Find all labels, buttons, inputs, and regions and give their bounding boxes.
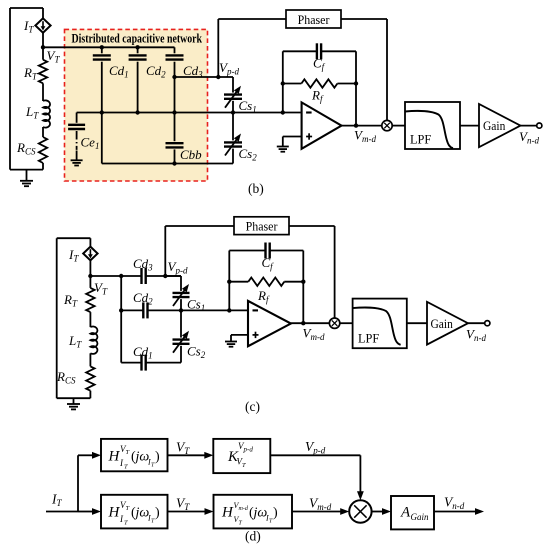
wire (d) input bbox=[46, 511, 78, 513]
resistor R_CS (c) bbox=[86, 366, 94, 390]
wire (b) left drop to bottom bus bbox=[101, 113, 103, 164]
label V_m-d (c) bbox=[303, 326, 325, 343]
svg-text:(d): (d) bbox=[245, 529, 261, 544]
svg-text:Cs1: Cs1 bbox=[239, 98, 257, 115]
multiplier (b) bbox=[382, 120, 392, 130]
inductor L_T (b) bbox=[43, 100, 50, 127]
wire (c) LPF to gain bbox=[407, 322, 427, 324]
arrow (d) into H block top bbox=[78, 452, 101, 459]
svg-text:p-d: p-d bbox=[243, 446, 254, 454]
wire (c) multiplier to LPF bbox=[340, 322, 353, 324]
capacitor Cd1 (b) bbox=[93, 45, 111, 112]
label Cbb (b) bbox=[180, 147, 202, 162]
wire (b) R_CS to bottom bbox=[42, 163, 44, 170]
node V_p-d (b) bbox=[216, 75, 220, 79]
label C_f (c) bbox=[262, 255, 275, 272]
capacitor Cbb (b) bbox=[166, 113, 184, 166]
svg-text:Cd1: Cd1 bbox=[133, 344, 153, 361]
label V_T (d) bottom bbox=[176, 496, 190, 513]
svg-text:jω: jω bbox=[252, 506, 268, 521]
svg-text:H: H bbox=[108, 448, 121, 464]
svg-text:): ) bbox=[273, 506, 278, 521]
svg-text:Vp-d: Vp-d bbox=[305, 439, 326, 456]
label V_m-d (d) bbox=[309, 496, 332, 513]
wire (c) source to R_T bbox=[89, 260, 91, 288]
label Ce1 (b) bbox=[81, 135, 100, 152]
arrow (d) H to K bbox=[168, 452, 214, 459]
wire (b) top bus V_T bbox=[43, 46, 175, 48]
label Cd1 (b) bbox=[109, 63, 129, 80]
svg-text:T: T bbox=[242, 462, 246, 469]
wire (b) L_T to R_CS bbox=[42, 127, 44, 137]
label Cd3 (c) bbox=[133, 256, 153, 273]
svg-text:Gain: Gain bbox=[483, 119, 505, 134]
label Cd1 (c) bbox=[133, 344, 153, 361]
multiplier (d) bbox=[349, 500, 371, 522]
caption (b) bbox=[248, 181, 264, 196]
label Cs2 (b) bbox=[239, 146, 258, 163]
wire (c) feedback right riser bbox=[302, 251, 304, 324]
wire (c) source top lead bbox=[89, 238, 91, 246]
wire (c) op-amp output bbox=[291, 321, 330, 325]
block Phaser (b) bbox=[286, 10, 341, 28]
wire (c) loop top bbox=[57, 237, 91, 239]
capacitor C_f (b) bbox=[283, 43, 356, 59]
block H_IT_VT (d) top bbox=[101, 439, 168, 471]
wire (c) phaser to riser bbox=[289, 225, 335, 227]
svg-text:Gain: Gain bbox=[431, 316, 453, 331]
wire (c) R_T to L_T bbox=[89, 312, 91, 327]
svg-text:LPF: LPF bbox=[358, 331, 379, 345]
arrow (d) into H block bottom bbox=[78, 508, 101, 515]
arrow (d) H2 to multiplier bbox=[292, 508, 349, 515]
label V_p-d (d) bbox=[305, 439, 326, 456]
variable capacitor Cs2 (c) bbox=[173, 310, 190, 362]
label R_T (c) bbox=[63, 292, 78, 309]
label Cd2 (c) bbox=[133, 290, 153, 307]
block K_VT_Vpd (d) bbox=[213, 439, 270, 473]
svg-text:Cs2: Cs2 bbox=[187, 344, 206, 361]
label V_n-d (b) bbox=[519, 129, 539, 146]
capacitor Cd2 (b) bbox=[129, 45, 147, 112]
label V_m-d (b) bbox=[354, 128, 376, 145]
arrow (d) V_p-d into multiplier bbox=[357, 455, 364, 500]
wire (b) R_T to L_T bbox=[42, 83, 44, 101]
capacitor Cd1 (c) bbox=[121, 355, 181, 371]
block H_VT_Vmd (d) bbox=[214, 495, 293, 529]
block Phaser (c) bbox=[234, 217, 289, 235]
svg-text:Cs2: Cs2 bbox=[239, 146, 258, 163]
capacitor Cd3 (c) bbox=[90, 268, 181, 284]
capacitor Cd3 (b) bbox=[166, 47, 184, 112]
label Cd2 (b) bbox=[146, 63, 166, 80]
svg-text:Cbb: Cbb bbox=[180, 147, 202, 162]
amplifier Gain (c) bbox=[427, 302, 468, 345]
svg-text:): ) bbox=[155, 449, 160, 464]
svg-text:RT: RT bbox=[63, 292, 78, 309]
wire (b) middle bus bbox=[77, 112, 301, 114]
svg-text:Cf: Cf bbox=[313, 56, 326, 73]
label I_T (b) bbox=[23, 18, 34, 35]
capacitor Cd2 (c) bbox=[121, 302, 248, 318]
inductor L_T (c) bbox=[90, 326, 97, 353]
svg-text:Gain: Gain bbox=[411, 512, 430, 522]
svg-text:Rf: Rf bbox=[257, 288, 270, 305]
svg-text:Vm-d: Vm-d bbox=[309, 496, 332, 513]
wire (b) to phaser bbox=[218, 18, 286, 20]
wire (c) gain to terminal bbox=[468, 322, 485, 324]
svg-text:VT: VT bbox=[176, 440, 190, 457]
svg-text:LT: LT bbox=[68, 333, 82, 350]
wire (b) loop bottom bbox=[10, 169, 43, 171]
current source I_T (c) bbox=[83, 247, 97, 261]
block A_Gain (d) bbox=[391, 496, 434, 529]
svg-text:Vp-d: Vp-d bbox=[219, 60, 239, 77]
wire (b) multiplier to LPF bbox=[392, 125, 405, 127]
svg-text:LPF: LPF bbox=[410, 132, 431, 146]
wire (b) source top lead bbox=[42, 8, 44, 18]
svg-text:IT: IT bbox=[68, 247, 79, 264]
label R_T (b) bbox=[23, 65, 38, 82]
svg-text:Vn-d: Vn-d bbox=[444, 495, 465, 512]
caption (d) bbox=[245, 529, 261, 544]
wire (c) loop left bbox=[56, 238, 58, 398]
svg-text:(b): (b) bbox=[248, 181, 264, 196]
label V_p-d (c) bbox=[168, 259, 188, 276]
label V_T (c) bbox=[94, 280, 108, 297]
current source I_T (b) bbox=[35, 18, 50, 32]
svg-text:Cs1: Cs1 bbox=[187, 297, 205, 314]
svg-text:LT: LT bbox=[25, 104, 39, 121]
svg-text:jω: jω bbox=[134, 449, 150, 464]
label L_T (c) bbox=[68, 333, 82, 350]
wire (b) V_p-d riser bbox=[217, 19, 219, 77]
arrow (d) multiplier to A_Gain bbox=[372, 508, 391, 515]
svg-text:Cd2: Cd2 bbox=[133, 290, 153, 307]
label Cs1 (b) bbox=[239, 98, 257, 115]
svg-text:T: T bbox=[126, 505, 130, 512]
op-amp U2 (c) bbox=[248, 301, 291, 346]
variable capacitor Cs2 (b) bbox=[224, 113, 242, 164]
label V_n-d (d) bbox=[444, 495, 465, 512]
ground (b) source loop bbox=[20, 170, 33, 187]
svg-text:): ) bbox=[155, 506, 160, 521]
label V_n-d (c) bbox=[466, 327, 486, 344]
svg-text:Phaser: Phaser bbox=[298, 12, 331, 27]
svg-text:Cd3: Cd3 bbox=[133, 256, 153, 273]
svg-text:jω: jω bbox=[134, 506, 150, 521]
terminal V_n-d (b) bbox=[537, 123, 542, 128]
resistor R_T (b) bbox=[39, 60, 47, 84]
op-amp U1 (b) bbox=[302, 102, 342, 148]
resistor R_f (c) bbox=[227, 278, 305, 286]
wire (b) source to R_T bbox=[42, 33, 44, 60]
label I_T (c) bbox=[68, 247, 79, 264]
svg-text:T: T bbox=[124, 520, 128, 527]
node V_p-d (c) bbox=[163, 274, 167, 278]
wire (b) LPF to gain bbox=[460, 125, 479, 127]
capacitor Ce1 (b) bbox=[68, 113, 85, 160]
ground (c) loop bbox=[67, 398, 80, 409]
distributed capacitive network box (b) bbox=[65, 29, 208, 181]
wire (b) loop top bbox=[10, 7, 43, 9]
junctions (b) middle bus bbox=[100, 110, 285, 114]
wire (b) loop left bbox=[9, 8, 11, 170]
ground (b) Ce1 bbox=[71, 160, 83, 165]
wire (c) riser to multiplier bbox=[334, 226, 336, 318]
label R_CS (b) bbox=[16, 140, 36, 157]
svg-text:Phaser: Phaser bbox=[246, 219, 279, 234]
resistor R_T (c) bbox=[86, 288, 94, 312]
label V_p-d (b) bbox=[219, 60, 239, 77]
svg-text:RCS: RCS bbox=[16, 140, 36, 157]
svg-text:Rf: Rf bbox=[311, 88, 324, 105]
ground (c) op-amp + input bbox=[225, 335, 248, 347]
wire (b) feedback left riser bbox=[282, 51, 284, 112]
amplifier Gain (b) bbox=[479, 104, 521, 147]
ground (b) op-amp + input bbox=[277, 137, 302, 152]
label R_CS (c) bbox=[56, 369, 76, 386]
label R_f (c) bbox=[257, 288, 270, 305]
wire (b) phaser to riser bbox=[341, 18, 387, 20]
wire (d) input riser bbox=[77, 455, 79, 511]
wire (c) to phaser bbox=[165, 225, 234, 227]
wire (c) V_p-d riser bbox=[164, 226, 166, 276]
svg-text:H: H bbox=[221, 505, 234, 521]
label: Distributed capacitive network bbox=[72, 33, 203, 46]
wire (c) loop bottom bbox=[57, 397, 91, 399]
node V_T (b) bbox=[41, 45, 45, 49]
label Cs1 (c) bbox=[187, 297, 205, 314]
svg-text:Vm-d: Vm-d bbox=[354, 128, 376, 145]
block LPF (c) bbox=[353, 299, 407, 349]
svg-text:T: T bbox=[124, 463, 128, 470]
block LPF (b) bbox=[405, 102, 460, 149]
block H_VT_Vmd (d) bottom-left bbox=[101, 495, 168, 529]
resistor R_CS (b) bbox=[39, 137, 47, 163]
svg-text:IT: IT bbox=[51, 492, 63, 509]
junction (c) left bus top bbox=[119, 274, 123, 278]
wire (b) gain to terminal bbox=[521, 125, 538, 127]
svg-text:VT: VT bbox=[94, 280, 108, 297]
svg-text:T: T bbox=[126, 449, 130, 456]
svg-text:m-d: m-d bbox=[239, 506, 249, 512]
svg-text:Distributed capacitive network: Distributed capacitive network bbox=[72, 33, 203, 46]
node V_T (c) bbox=[88, 274, 92, 278]
label V_T (b) bbox=[47, 48, 61, 65]
wire (b) feedback right riser bbox=[355, 51, 357, 125]
arrow (d) output bbox=[434, 508, 484, 515]
wire (c) R_CS to bottom bbox=[89, 391, 91, 399]
variable capacitor Cs1 (b) bbox=[224, 77, 242, 113]
wire (b) bottom bus bbox=[102, 163, 233, 165]
svg-text:RT: RT bbox=[23, 65, 38, 82]
wire (b) Cd3 node to Cs1 bbox=[172, 75, 233, 79]
multiplier (c) bbox=[329, 318, 339, 328]
arrow (d) H to H2 bbox=[168, 508, 214, 515]
svg-text:A: A bbox=[400, 505, 411, 521]
label I_T (d) bbox=[51, 492, 63, 509]
svg-text:Vm-d: Vm-d bbox=[303, 326, 325, 343]
wire (c) feedback left riser bbox=[228, 251, 230, 311]
svg-text:Vn-d: Vn-d bbox=[519, 129, 539, 146]
svg-text:H: H bbox=[108, 505, 121, 521]
terminal V_n-d (c) bbox=[485, 321, 490, 326]
resistor R_f (b) bbox=[281, 79, 359, 87]
wire (b) riser to multiplier bbox=[386, 19, 388, 121]
svg-text:(c): (c) bbox=[245, 399, 260, 414]
svg-text:Cf: Cf bbox=[262, 255, 275, 272]
label C_f (b) bbox=[313, 56, 326, 73]
svg-text:Vp-d: Vp-d bbox=[168, 259, 188, 276]
label L_T (b) bbox=[25, 104, 39, 121]
label Cd3 (b) bbox=[183, 63, 203, 80]
wire (d) K output bbox=[270, 454, 360, 456]
label R_f (b) bbox=[311, 88, 324, 105]
svg-text:RCS: RCS bbox=[56, 369, 76, 386]
caption (c) bbox=[245, 399, 260, 414]
variable capacitor Cs1 (c) bbox=[165, 276, 189, 310]
wire (c) L_T to R_CS bbox=[89, 353, 91, 366]
svg-text:VT: VT bbox=[176, 496, 190, 513]
svg-text:Vn-d: Vn-d bbox=[466, 327, 486, 344]
label V_T (d) top bbox=[176, 440, 190, 457]
wire (b) op-amp output bbox=[342, 123, 383, 127]
wire (c) left bus bbox=[119, 276, 123, 363]
capacitor C_f (c) bbox=[229, 243, 303, 259]
label Cs2 (c) bbox=[187, 344, 206, 361]
svg-text:IT: IT bbox=[23, 18, 34, 35]
